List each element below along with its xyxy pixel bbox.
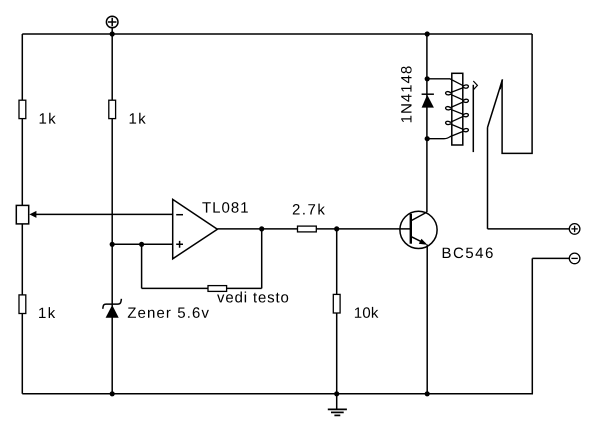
wire supply stub: [111, 28, 113, 34]
wire to + output terminal: [488, 228, 570, 230]
wire top rail: [22, 33, 532, 35]
ground: [328, 394, 347, 416]
potentiometer: [16, 205, 36, 224]
node junction 2.7k/10k/base: [334, 226, 339, 231]
diode D1 1N4148: [401, 66, 434, 122]
supply + terminal: [106, 16, 118, 28]
relay armature line: [473, 81, 477, 152]
wire plus-input: [112, 243, 173, 245]
node junction middle branch / plus input: [110, 242, 115, 247]
node junction supply/top rail: [110, 31, 115, 36]
wire collector up: [426, 34, 428, 212]
node junction diode top / coil: [425, 76, 430, 81]
relay coil K1: [427, 73, 468, 145]
node junction emitter/bottom rail: [425, 391, 430, 396]
resistor vedi testo (feedback): [208, 286, 288, 303]
wire bottom rail: [22, 393, 533, 395]
wire middle branch: [111, 34, 113, 394]
node junction 10k/ground/bottom rail: [334, 391, 339, 396]
wire to - output terminal: [532, 258, 569, 393]
node junction diode bottom / coil: [425, 136, 430, 141]
resistor 10k: [333, 294, 378, 318]
transistor Q1 BC546: [400, 211, 493, 258]
wire left rail upper: [21, 34, 23, 205]
resistor 1k left-bottom: [19, 295, 55, 318]
wire left rail lower: [21, 224, 23, 394]
wire 10k branch: [336, 229, 338, 394]
wire feedback down: [141, 244, 143, 288]
node junction output/feedback: [259, 226, 264, 231]
resistor 1k middle: [109, 100, 146, 123]
wire emitter down: [426, 245, 428, 394]
wire feedback up to output: [261, 229, 263, 289]
output + terminal: [569, 224, 580, 235]
wire op-amp output: [217, 228, 410, 230]
wire wiper to op-amp inverting input: [36, 213, 173, 215]
relay contact (switch): [488, 34, 533, 229]
node junction collector/top rail: [425, 31, 430, 36]
output - terminal: [569, 253, 580, 264]
op-amp U1 TL081: [173, 199, 248, 258]
node junction feedback tap: [139, 242, 144, 247]
node junction zener branch / bottom rail: [110, 391, 115, 396]
resistor 2.7k: [293, 204, 325, 232]
wire feedback horizontal: [142, 287, 262, 289]
zener diode 5.6V: [103, 299, 209, 318]
resistor 1k left-top: [19, 100, 56, 123]
